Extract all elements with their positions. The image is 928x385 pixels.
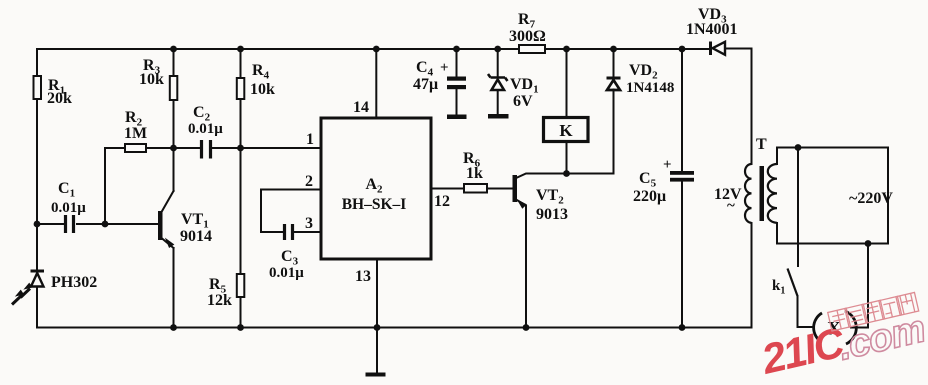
wire C1 row xyxy=(37,223,158,225)
transformer T secondary winding xyxy=(768,164,777,223)
capacitor C2 xyxy=(188,104,223,159)
node R4 top xyxy=(237,46,244,53)
wire VT2 collector to relay/VD2 xyxy=(516,174,614,179)
wire 220V top lead xyxy=(777,148,888,165)
label 12V xyxy=(714,186,742,214)
transistor VT1 xyxy=(158,211,212,247)
svg-text:C5: C5 xyxy=(639,170,657,190)
svg-text:K: K xyxy=(559,121,573,140)
wire 220V right vertical xyxy=(887,148,889,244)
node VT2 emitter bottom xyxy=(523,324,530,331)
node C4 top xyxy=(453,46,460,53)
svg-text:C1: C1 xyxy=(58,180,75,200)
diode VD2 xyxy=(607,62,675,96)
svg-text:1N4148: 1N4148 xyxy=(626,80,674,96)
svg-text:0.01μ: 0.01μ xyxy=(51,200,86,216)
diode VD3 xyxy=(686,6,738,55)
svg-text:PH302: PH302 xyxy=(51,274,97,291)
wire IC pin 12 to R6 xyxy=(431,188,513,190)
watermark 21IC.com xyxy=(756,307,928,383)
svg-text:12k: 12k xyxy=(207,292,232,309)
svg-text:A2: A2 xyxy=(365,176,383,196)
node C5 bottom xyxy=(679,324,686,331)
svg-text:10k: 10k xyxy=(250,81,275,98)
capacitor C5 electrolytic xyxy=(633,157,694,205)
label ~220V xyxy=(849,190,893,207)
svg-text:k1: k1 xyxy=(772,278,785,297)
wire lamp right lead xyxy=(851,244,868,328)
wire top rail xyxy=(37,48,752,51)
pin label 13 xyxy=(355,268,371,285)
node VD2 top xyxy=(610,46,617,53)
transistor VT2 xyxy=(513,175,569,223)
svg-text:1: 1 xyxy=(306,131,314,148)
svg-text:220μ: 220μ xyxy=(633,188,666,205)
resistor R1 xyxy=(34,76,73,107)
node C1/R2 junction xyxy=(102,221,109,228)
svg-text:1k: 1k xyxy=(466,165,483,182)
ground at pin 13 xyxy=(366,328,386,377)
wire C5 branch xyxy=(681,49,683,328)
svg-text:2: 2 xyxy=(305,173,313,190)
node R2/C2/R3 junction xyxy=(170,145,177,152)
resistor R3 xyxy=(139,57,177,100)
wire R3/VT1 vertical xyxy=(162,49,174,328)
svg-text:3: 3 xyxy=(305,215,313,232)
wire switch k1 branch xyxy=(798,148,813,328)
wire left branch R1/PH302 xyxy=(36,49,38,328)
capacitor C4 electrolytic xyxy=(413,59,466,93)
svg-text:14: 14 xyxy=(353,99,369,116)
photodiode PH302 xyxy=(12,271,97,305)
svg-text:20k: 20k xyxy=(47,90,72,107)
resistor R5 xyxy=(207,274,244,309)
svg-text:VD2: VD2 xyxy=(629,62,658,82)
wire IC pin 2 / pin 3 bracket xyxy=(261,190,321,233)
svg-text:10k: 10k xyxy=(139,71,164,88)
ground at C4 xyxy=(447,115,467,120)
resistor R6 xyxy=(463,150,487,193)
wire C4 branch xyxy=(456,49,458,115)
node VD1 top xyxy=(494,46,501,53)
svg-text:+: + xyxy=(663,157,672,173)
svg-text:13: 13 xyxy=(355,268,371,285)
resistor R7 xyxy=(509,11,546,53)
node k1 top xyxy=(795,144,802,151)
svg-text:1M: 1M xyxy=(124,125,147,142)
svg-text:~: ~ xyxy=(727,198,735,214)
node C1 left xyxy=(34,221,41,228)
svg-text:~220V: ~220V xyxy=(849,190,893,207)
zener diode VD1 xyxy=(488,74,539,110)
wire R4/R5 vertical xyxy=(240,49,242,328)
pin label 12 xyxy=(434,193,450,210)
transformer T core xyxy=(756,136,767,221)
svg-text:T: T xyxy=(756,136,767,153)
svg-text:0.01μ: 0.01μ xyxy=(188,121,223,137)
node C2/R4 junction xyxy=(237,145,244,152)
svg-text:R4: R4 xyxy=(252,62,270,82)
resistor R4 xyxy=(237,62,275,99)
watermark chinese characters xyxy=(828,292,919,331)
wire bottom rail xyxy=(37,327,752,329)
lamp X xyxy=(814,311,857,344)
svg-text:1N4001: 1N4001 xyxy=(686,21,738,38)
svg-text:9014: 9014 xyxy=(180,228,212,245)
node pin13 bottom xyxy=(374,324,381,331)
svg-text:300Ω: 300Ω xyxy=(509,28,546,45)
node C5 top xyxy=(679,46,686,53)
wire VD1 branch xyxy=(497,49,499,114)
pin label 3 xyxy=(305,215,313,232)
svg-text:BH–SK–I: BH–SK–I xyxy=(342,196,407,213)
wire transformer primary-side vertical xyxy=(751,49,753,328)
switch k1 blade xyxy=(772,269,798,297)
svg-text:6V: 6V xyxy=(513,93,533,110)
node K top xyxy=(563,46,570,53)
pin label 14 xyxy=(353,99,369,116)
node R3 top xyxy=(170,46,177,53)
capacitor C3 xyxy=(269,224,304,281)
wire IC pin 14 xyxy=(375,49,377,118)
relay K xyxy=(544,118,589,142)
svg-text:+: + xyxy=(440,60,449,76)
wire IC pin 13 xyxy=(376,259,378,328)
svg-text:9013: 9013 xyxy=(536,206,568,223)
transformer T primary winding xyxy=(745,164,752,223)
pin label 1 xyxy=(306,131,314,148)
svg-text:12: 12 xyxy=(434,193,450,210)
wire VD2 branch xyxy=(613,49,615,174)
node VT1 emitter bottom xyxy=(170,324,177,331)
wire 220V bottom lead xyxy=(777,223,888,244)
svg-text:47μ: 47μ xyxy=(413,76,438,93)
ic A2 BH-SK-I xyxy=(321,118,431,259)
capacitor C1 xyxy=(51,180,86,233)
svg-text:0.01μ: 0.01μ xyxy=(269,265,304,281)
svg-text:VT2: VT2 xyxy=(536,187,564,207)
wire VT2 emitter xyxy=(516,200,526,328)
node relay/collector junction xyxy=(563,170,570,177)
node pin14 top xyxy=(373,46,380,53)
node lamp return xyxy=(865,240,872,247)
wire relay K leads xyxy=(566,49,568,174)
wire R2 branch xyxy=(105,148,321,224)
node R5 bottom xyxy=(237,324,244,331)
pin label 2 xyxy=(305,173,313,190)
resistor R2 xyxy=(124,109,147,152)
ground at VD1 xyxy=(488,114,509,119)
